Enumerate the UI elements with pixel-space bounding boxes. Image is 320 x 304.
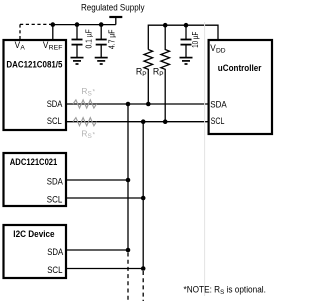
svg-text:SCL: SCL <box>47 194 63 204</box>
node: 10uF junction <box>184 23 189 28</box>
wire: dashed VA supply (horizontal) <box>20 23 51 25</box>
resistor RP1 (SDA pull-up) <box>144 50 153 105</box>
svg-text:10 µF: 10 µF <box>190 32 200 48</box>
wire: SDA bus dashed continuation <box>127 253 129 302</box>
node: ADC SCL junction <box>141 196 146 201</box>
node: ADC SDA junction <box>126 178 131 183</box>
node: I2C Device SDA junction <box>126 248 131 253</box>
svg-text:0.1 µF: 0.1 µF <box>83 29 93 48</box>
svg-text:SDA: SDA <box>47 99 63 109</box>
node: SCL bus top junction <box>141 119 146 124</box>
wire: SDA line (DAC to uController) <box>65 103 209 105</box>
resistor RP2 (SCL pull-up) <box>161 25 170 122</box>
node: RP1-SDA junction <box>146 102 151 107</box>
wire: ADC SCL to bus <box>65 197 143 199</box>
node: 0.1uF junction <box>75 22 80 27</box>
svg-text:RS*: RS* <box>81 129 95 141</box>
svg-text:Regulated Supply: Regulated Supply <box>81 2 145 12</box>
capacitor C2 4.7 uF <box>96 25 107 58</box>
svg-text:SDA: SDA <box>47 177 64 187</box>
wire: I2C Device SDA to bus <box>65 249 128 251</box>
node: RP2-SCL junction <box>163 119 168 124</box>
svg-text:V: V <box>210 43 216 53</box>
svg-text:DAC121C081/5: DAC121C081/5 <box>6 59 62 69</box>
svg-text:V: V <box>43 40 49 50</box>
wire: SCL bus vertical <box>142 122 144 269</box>
wire: SCL bus dashed continuation <box>142 271 144 301</box>
svg-text:*NOTE: RS is optional.: *NOTE: RS is optional. <box>184 285 266 297</box>
capacitor C3 10 uF <box>181 25 192 57</box>
svg-text:uController: uController <box>218 63 262 73</box>
wire: VREF pin lead <box>52 25 54 40</box>
scan artifact line (faint) <box>204 22 206 296</box>
svg-text:V: V <box>15 40 21 50</box>
DAC121C081/5 box <box>4 40 67 130</box>
svg-text:SDA: SDA <box>47 247 64 257</box>
wire: ADC SDA to bus <box>65 179 128 181</box>
node: SDA bus top junction <box>126 102 131 107</box>
node: RP2 top junction <box>163 23 168 28</box>
node: VREF junction <box>51 22 56 27</box>
capacitor C1 0.1 uF <box>72 25 83 58</box>
svg-text:I2C Device: I2C Device <box>13 229 54 239</box>
svg-text:4.7 µF: 4.7 µF <box>107 30 117 50</box>
svg-text:SDA: SDA <box>210 100 227 110</box>
wire: right supply rail <box>148 25 218 49</box>
ground (under C1) <box>71 58 84 64</box>
ground (under C2) <box>95 58 108 64</box>
wire: I2C Device SCL to bus <box>65 268 143 270</box>
resistor RS2 (series, SCL, gray) <box>73 118 97 126</box>
ADC121C021 box <box>4 153 67 206</box>
svg-text:RS*: RS* <box>81 86 95 98</box>
svg-text:SCL: SCL <box>47 265 62 275</box>
ground (under C3) <box>180 58 193 64</box>
node: I2C Device SCL junction <box>141 266 146 271</box>
svg-text:SCL: SCL <box>211 116 225 126</box>
svg-text:ADC121C021: ADC121C021 <box>10 157 58 167</box>
node: 4.7uF junction <box>99 22 104 27</box>
svg-text:A: A <box>20 44 25 51</box>
I2C Device box <box>4 225 67 278</box>
svg-text:REF: REF <box>49 45 63 52</box>
uController box <box>209 40 272 134</box>
wire: SDA bus vertical <box>127 104 129 250</box>
wire: SCL line (DAC to uController) <box>65 121 209 123</box>
wire: dashed VA supply (vertical) <box>19 24 21 39</box>
svg-text:DD: DD <box>216 48 226 55</box>
power terminal T (regulated supply) <box>109 17 122 25</box>
resistor RS1 (series, SDA, gray) <box>73 100 97 108</box>
svg-text:SCL: SCL <box>47 116 62 126</box>
wire: left supply rail <box>53 24 116 26</box>
